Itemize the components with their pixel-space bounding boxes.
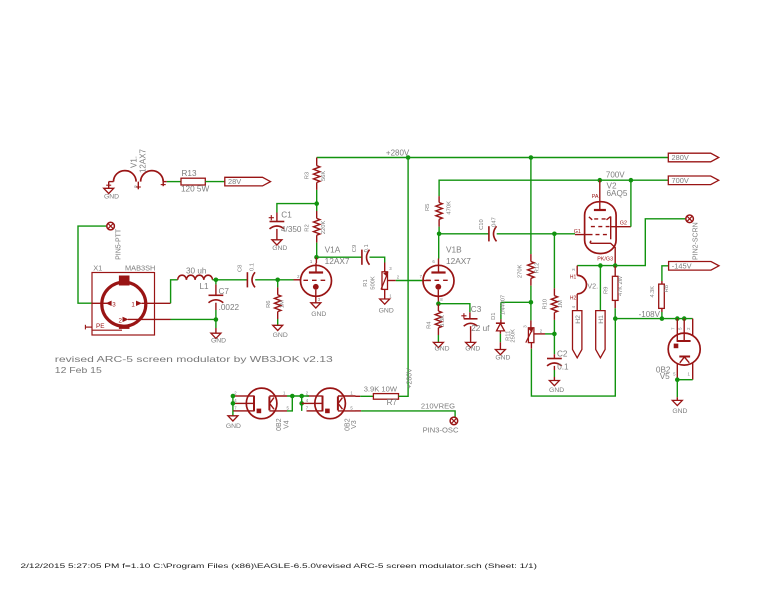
svg-text:PIN2-SCRN: PIN2-SCRN <box>692 222 699 260</box>
svg-text:GND: GND <box>465 345 480 352</box>
svg-text:C10: C10 <box>479 219 485 230</box>
svg-text:R13: R13 <box>182 169 197 178</box>
svg-text:12AX7: 12AX7 <box>139 148 148 173</box>
svg-text:6AQ5: 6AQ5 <box>607 189 628 198</box>
svg-text:+280V: +280V <box>407 368 414 389</box>
svg-text:250K: 250K <box>511 329 517 343</box>
svg-text:X1: X1 <box>93 263 102 272</box>
svg-text:H2: H2 <box>570 295 577 301</box>
svg-text:0.1: 0.1 <box>557 363 569 372</box>
svg-text:28V: 28V <box>228 177 241 186</box>
svg-text:GND: GND <box>311 311 326 318</box>
svg-text:R7: R7 <box>387 398 398 407</box>
svg-text:30 uh: 30 uh <box>186 267 207 276</box>
svg-text:.0022: .0022 <box>219 303 240 312</box>
svg-text:PE: PE <box>96 323 105 330</box>
svg-text:R1: R1 <box>363 279 369 286</box>
svg-text:V4: V4 <box>284 420 291 429</box>
svg-text:1N4007: 1N4007 <box>500 295 506 315</box>
svg-text:56K: 56K <box>321 171 327 181</box>
svg-text:V2.: V2. <box>587 282 598 291</box>
svg-text:220K: 220K <box>321 221 327 235</box>
svg-text:H2: H2 <box>575 315 582 324</box>
svg-text:2: 2 <box>119 317 123 324</box>
svg-text:H1: H1 <box>598 315 605 324</box>
svg-text:PA: PA <box>592 194 599 200</box>
svg-text:GND: GND <box>379 308 394 315</box>
svg-text:2/12/2015 5:27:05 PM f=1.10: 2/12/2015 5:27:05 PM f=1.10 C:\Program F… <box>21 563 538 570</box>
svg-text:3.9K 10W: 3.9K 10W <box>364 384 398 393</box>
svg-text:PIN3-OSC: PIN3-OSC <box>423 426 459 435</box>
svg-text:G1: G1 <box>574 229 581 235</box>
svg-text:500K: 500K <box>370 276 376 290</box>
svg-text:700V: 700V <box>606 170 625 179</box>
svg-text:C2: C2 <box>557 350 568 359</box>
svg-text:470K: 470K <box>446 201 452 215</box>
svg-text:270K: 270K <box>517 264 523 278</box>
svg-text:GND: GND <box>549 387 564 394</box>
svg-text:210VREG: 210VREG <box>421 402 455 411</box>
svg-text:GND: GND <box>273 332 288 339</box>
svg-text:V5: V5 <box>660 372 670 381</box>
svg-text:GND: GND <box>272 245 287 252</box>
svg-text:47K 2W: 47K 2W <box>618 275 624 296</box>
svg-text:4/350: 4/350 <box>281 225 302 234</box>
svg-text:GND: GND <box>434 345 449 352</box>
svg-text:PIN5-PTT: PIN5-PTT <box>115 228 122 260</box>
svg-text:L1: L1 <box>200 282 210 291</box>
svg-text:D1: D1 <box>491 312 497 319</box>
svg-text:C7: C7 <box>219 287 230 296</box>
svg-text:22 uf: 22 uf <box>471 324 490 333</box>
svg-text:R9: R9 <box>604 287 610 294</box>
svg-text:12AX7: 12AX7 <box>446 256 471 266</box>
svg-text:0.1: 0.1 <box>364 244 370 252</box>
svg-text:C9: C9 <box>352 245 358 252</box>
svg-text:V1.: V1. <box>130 156 139 168</box>
svg-text:MAB3SH: MAB3SH <box>125 263 155 272</box>
svg-text:R3: R3 <box>304 172 310 179</box>
svg-text:R10: R10 <box>542 299 548 310</box>
svg-text:V1A: V1A <box>325 244 341 254</box>
svg-text:R4: R4 <box>427 321 433 329</box>
svg-text:C8: C8 <box>238 265 244 272</box>
svg-text:GND: GND <box>672 408 687 415</box>
svg-text:C3: C3 <box>471 305 482 314</box>
svg-text:V1B: V1B <box>446 244 462 254</box>
svg-text:4.3K: 4.3K <box>650 286 656 298</box>
svg-text:G2: G2 <box>620 221 627 227</box>
svg-text:.047: .047 <box>492 217 498 228</box>
svg-text:-145V: -145V <box>672 261 692 270</box>
svg-text:GND: GND <box>211 338 226 345</box>
svg-text:C1: C1 <box>281 210 292 219</box>
svg-text:R2: R2 <box>304 224 310 231</box>
svg-text:0.1: 0.1 <box>250 263 256 271</box>
svg-text:R5: R5 <box>425 204 431 211</box>
svg-text:PK/G3: PK/G3 <box>597 256 613 262</box>
svg-text:120 5W: 120 5W <box>181 185 209 194</box>
svg-text:1M: 1M <box>558 300 564 308</box>
svg-text:0B2: 0B2 <box>276 418 283 431</box>
svg-text:3: 3 <box>112 301 116 308</box>
svg-text:-108V: -108V <box>639 310 661 319</box>
svg-text:H1: H1 <box>570 274 577 280</box>
svg-text:GND: GND <box>495 354 510 361</box>
svg-text:280V: 280V <box>672 153 689 162</box>
svg-text:R12: R12 <box>534 263 540 274</box>
svg-text:GND: GND <box>104 194 119 201</box>
svg-text:3.3K: 3.3K <box>440 315 446 327</box>
svg-text:1M: 1M <box>279 300 285 308</box>
svg-text:GND: GND <box>226 423 241 430</box>
svg-text:1: 1 <box>131 301 135 308</box>
svg-text:12 Feb 15: 12 Feb 15 <box>55 366 103 375</box>
svg-text:R8: R8 <box>664 285 670 292</box>
svg-text:V3: V3 <box>351 420 358 429</box>
svg-text:700V: 700V <box>672 176 689 185</box>
svg-text:revised ARC-5 screen modulator: revised ARC-5 screen modulator by WB3JOK… <box>55 355 334 364</box>
svg-text:R6: R6 <box>266 300 272 307</box>
